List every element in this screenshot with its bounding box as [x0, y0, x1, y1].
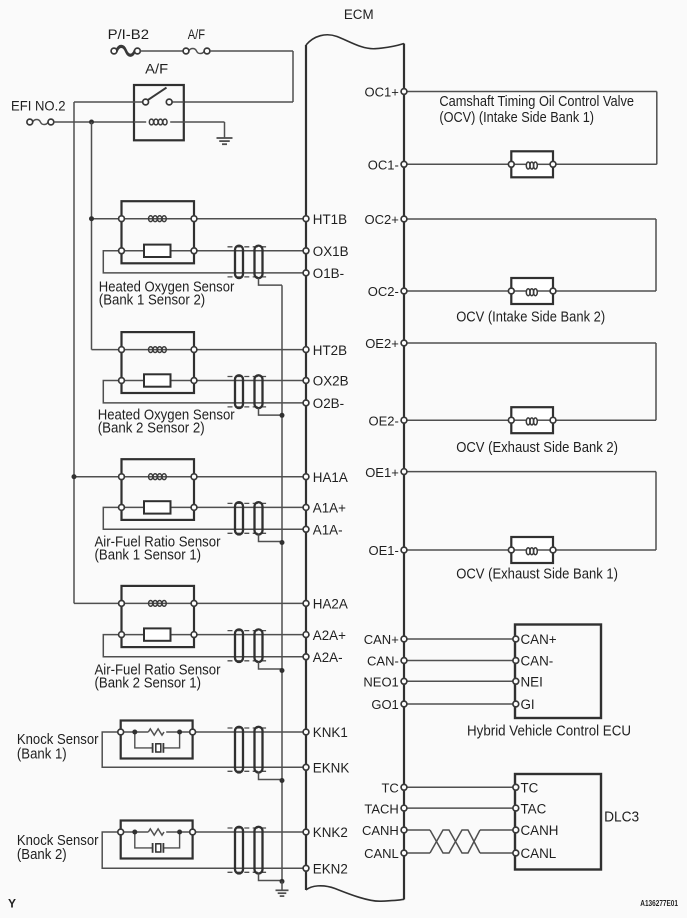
svg-text:HA2A: HA2A	[313, 597, 348, 612]
svg-text:A2A+: A2A+	[313, 628, 346, 643]
svg-text:OC1-: OC1-	[368, 158, 399, 173]
svg-text:Hybrid Vehicle Control ECU: Hybrid Vehicle Control ECU	[467, 722, 631, 739]
svg-text:DLC3: DLC3	[604, 808, 639, 825]
svg-text:NEI: NEI	[521, 675, 543, 690]
svg-text:CANH: CANH	[521, 823, 559, 838]
svg-text:HT2B: HT2B	[313, 343, 347, 358]
svg-text:HA1A: HA1A	[313, 470, 348, 485]
svg-text:P/I-B2: P/I-B2	[108, 26, 150, 42]
svg-text:GO1: GO1	[371, 697, 398, 712]
svg-text:TACH: TACH	[364, 801, 398, 816]
svg-text:OE2+: OE2+	[365, 336, 399, 351]
svg-text:OX2B: OX2B	[313, 374, 349, 389]
svg-text:Y: Y	[8, 897, 16, 911]
svg-text:(OCV) (Intake Side Bank 1): (OCV) (Intake Side Bank 1)	[439, 109, 594, 126]
svg-text:KNK1: KNK1	[313, 725, 348, 740]
svg-text:OCV (Exhaust Side Bank 2): OCV (Exhaust Side Bank 2)	[456, 439, 618, 456]
svg-text:A136277E01: A136277E01	[640, 899, 678, 908]
svg-text:CAN-: CAN-	[521, 654, 554, 669]
svg-text:O2B-: O2B-	[313, 396, 344, 411]
svg-text:(Bank 1): (Bank 1)	[17, 745, 67, 762]
svg-text:OE2-: OE2-	[368, 413, 398, 428]
svg-text:OE1-: OE1-	[368, 543, 398, 558]
svg-text:EKN2: EKN2	[313, 861, 348, 876]
svg-text:TC: TC	[381, 781, 398, 796]
svg-text:CANL: CANL	[521, 846, 557, 861]
svg-text:GI: GI	[521, 697, 535, 712]
svg-text:TC: TC	[521, 781, 539, 796]
svg-text:A1A+: A1A+	[313, 501, 346, 516]
svg-text:(Bank 2 Sensor 1): (Bank 2 Sensor 1)	[95, 675, 202, 692]
svg-text:A1A-: A1A-	[313, 523, 343, 538]
svg-text:O1B-: O1B-	[313, 266, 344, 281]
svg-text:TAC: TAC	[521, 801, 547, 816]
svg-text:A/F: A/F	[145, 61, 168, 77]
svg-text:OE1+: OE1+	[365, 465, 399, 480]
svg-text:CANH: CANH	[362, 823, 399, 838]
svg-text:OC1+: OC1+	[364, 85, 398, 100]
svg-text:(Bank 1 Sensor 2): (Bank 1 Sensor 2)	[99, 291, 205, 308]
svg-text:EKNK: EKNK	[313, 761, 350, 776]
svg-text:CAN-: CAN-	[367, 654, 399, 669]
svg-text:NEO1: NEO1	[363, 675, 398, 690]
svg-text:OCV (Exhaust Side Bank 1): OCV (Exhaust Side Bank 1)	[456, 566, 618, 583]
svg-text:CANL: CANL	[364, 846, 399, 861]
svg-text:(Bank 2 Sensor 2): (Bank 2 Sensor 2)	[98, 419, 205, 436]
svg-text:ECM: ECM	[344, 7, 374, 22]
svg-text:(Bank 2): (Bank 2)	[17, 846, 67, 863]
svg-text:OC2+: OC2+	[364, 212, 398, 227]
svg-text:OCV (Intake Side Bank 2): OCV (Intake Side Bank 2)	[456, 308, 605, 325]
svg-text:OX1B: OX1B	[313, 244, 349, 259]
svg-text:Camshaft Timing Oil Control Va: Camshaft Timing Oil Control Valve	[439, 93, 634, 110]
svg-text:A2A-: A2A-	[313, 650, 343, 665]
svg-text:A/F: A/F	[188, 26, 205, 42]
svg-text:KNK2: KNK2	[313, 825, 348, 840]
svg-text:HT1B: HT1B	[313, 212, 347, 227]
svg-text:OC2-: OC2-	[368, 284, 399, 299]
svg-text:CAN+: CAN+	[364, 632, 399, 647]
svg-text:(Bank 1 Sensor 1): (Bank 1 Sensor 1)	[95, 547, 202, 564]
svg-text:CAN+: CAN+	[521, 632, 557, 647]
svg-text:EFI NO.2: EFI NO.2	[11, 98, 66, 114]
